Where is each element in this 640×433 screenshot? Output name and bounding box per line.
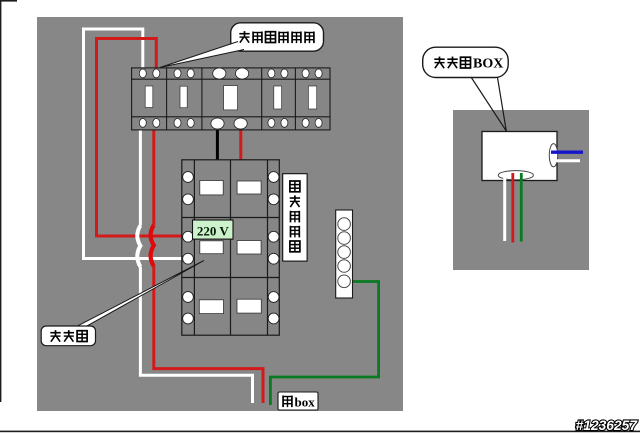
breaker terminal M4 top bbox=[268, 69, 275, 78]
svg-text:#1236257: #1236257 bbox=[576, 418, 639, 433]
callout pump-box tail lines bbox=[471, 77, 506, 131]
breaker terminal M4 bottom bbox=[281, 119, 288, 128]
callout char 4 bbox=[279, 32, 288, 44]
block terminal 1 bbox=[183, 172, 194, 183]
label char 2 bbox=[290, 195, 300, 207]
breaker terminal M3 bottom-left (main) bbox=[211, 118, 224, 129]
block handle 4 bbox=[237, 241, 261, 255]
breaker M5 handle bbox=[308, 86, 316, 109]
pump label char 2 bbox=[64, 330, 74, 342]
callout char 1 bbox=[434, 57, 444, 69]
callout char 2 bbox=[253, 32, 262, 44]
box right grommet ellipse bbox=[549, 144, 557, 167]
block terminal 2 bbox=[183, 194, 194, 205]
block terminal 9 bbox=[183, 292, 194, 303]
label to-box bbox=[278, 392, 318, 410]
terminal strip hole 2 bbox=[338, 232, 351, 245]
frame top-left stub bbox=[0, 0, 17, 2]
breaker M4 handle bbox=[274, 86, 282, 109]
block terminal 5 bbox=[183, 231, 194, 242]
callout char 5 bbox=[292, 32, 301, 44]
breaker terminal M5 top bbox=[315, 69, 322, 78]
block terminal 7 bbox=[268, 231, 279, 242]
block handle 1 bbox=[200, 181, 223, 195]
breaker terminal M2 top bbox=[174, 69, 181, 78]
breaker strip body (leakage protection breakers row) bbox=[132, 68, 330, 130]
breaker terminal M2 top bbox=[187, 69, 194, 78]
breaker M3 handle (main, wider) bbox=[224, 86, 238, 110]
wire white L1 from breaker M1 to 220V block (hot-return loop) bbox=[84, 29, 183, 259]
block terminal 6 bbox=[183, 253, 194, 264]
terminal strip hole 5 bbox=[338, 275, 351, 288]
svg-text:box: box bbox=[295, 395, 316, 410]
pump label char 1 bbox=[50, 330, 60, 342]
wire white out right bbox=[554, 159, 580, 162]
terminal strip hole 3 bbox=[338, 246, 351, 259]
block terminal 10 bbox=[183, 313, 194, 324]
block handle 5 bbox=[199, 300, 223, 314]
wire white L2 lower run to bottom bbox=[140, 267, 252, 403]
label char 4 bbox=[291, 226, 300, 238]
breaker terminal M1 top bbox=[153, 69, 160, 78]
wire red L2 hop arcs over horizontal wires bbox=[151, 225, 154, 266]
label char 5 bbox=[290, 241, 300, 252]
breaker terminal M1 bottom bbox=[139, 119, 146, 128]
wire blue out right bbox=[551, 150, 583, 153]
pump junction box (white) bbox=[482, 132, 557, 181]
wire red down from box bbox=[511, 173, 514, 243]
pump label char 3 bbox=[77, 331, 87, 342]
breaker terminal M5 top bbox=[302, 69, 309, 78]
block terminal 12 bbox=[268, 313, 279, 324]
callout char 6 bbox=[305, 32, 314, 44]
breaker terminal M5 bottom bbox=[302, 119, 309, 128]
box bottom grommet ellipse bbox=[498, 171, 533, 180]
callout tail (wedge) bbox=[160, 42, 244, 68]
label char 1 bbox=[290, 181, 300, 192]
svg-text:BOX: BOX bbox=[473, 56, 503, 71]
wire red L2 from breaker M1 bottom down to bottom run bbox=[152, 124, 155, 225]
right gray panel bbox=[453, 110, 589, 270]
breaker terminal M3 top-right (main) bbox=[236, 68, 249, 79]
block terminal 3 bbox=[268, 172, 279, 183]
svg-text:220 V: 220 V bbox=[197, 223, 230, 238]
frame bottom line bbox=[0, 431, 640, 433]
breaker M2 handle bbox=[180, 86, 187, 108]
callout char 3 bbox=[461, 57, 471, 68]
breaker terminal M1 top bbox=[139, 69, 146, 78]
wire red from breaker M3 to 220V block bbox=[239, 124, 242, 162]
wire red L2 lower run to bottom bbox=[154, 266, 263, 403]
block terminal 8 bbox=[268, 253, 279, 264]
wire white L2 from breaker M1 bottom down to bottom run bbox=[139, 124, 142, 226]
breaker terminal M2 bottom bbox=[187, 119, 194, 128]
breaker M1 handle bbox=[145, 86, 153, 108]
callout pump label box bbox=[41, 326, 95, 346]
wire white L2 hop arcs over horizontal wires bbox=[137, 226, 140, 267]
breaker terminal M4 top bbox=[281, 69, 288, 78]
breaker terminal M5 bottom bbox=[315, 119, 322, 128]
frame left border line bbox=[0, 0, 1, 402]
label char 3 bbox=[291, 211, 300, 223]
label no-fuse-breaker (vertical CJK) box bbox=[283, 174, 307, 261]
callout char 2 bbox=[447, 57, 457, 69]
callout pump-box bubble bbox=[423, 47, 509, 77]
terminal strip (neutral/ground bar) bbox=[336, 210, 353, 298]
breaker terminal M3 top-left (main) bbox=[213, 68, 226, 79]
wire black from breaker M3 to 220V block bbox=[216, 124, 219, 161]
wire green down from box bbox=[520, 173, 523, 242]
terminal strip hole 1 bbox=[338, 218, 351, 231]
block handle 2 bbox=[237, 181, 261, 194]
label 220 V bbox=[193, 220, 234, 239]
wire green from terminal strip to bottom box run bbox=[270, 282, 378, 406]
callout pump label leader wedge bbox=[72, 261, 204, 332]
callout leakage-protection-switch bubble bbox=[231, 23, 324, 51]
breaker terminal M1 bottom bbox=[153, 119, 160, 128]
callout char 1 bbox=[239, 31, 249, 43]
block terminal 11 bbox=[268, 292, 279, 303]
block handle 3 bbox=[200, 241, 223, 254]
to-box char bbox=[283, 396, 292, 408]
wire red L1 from breaker M1 to 220V block bbox=[97, 39, 183, 237]
block handle 6 bbox=[237, 299, 261, 313]
220V breaker block body (no-fuse breakers, 3 rows x 2 cols) bbox=[182, 160, 279, 335]
callout char 3 bbox=[266, 32, 276, 43]
terminal strip hole 4 bbox=[338, 260, 351, 273]
breaker terminal M4 bottom bbox=[268, 119, 275, 128]
breaker terminal M2 bottom bbox=[174, 119, 181, 128]
left gray panel bbox=[37, 17, 403, 411]
breaker terminal M3 bottom-right (main) bbox=[234, 118, 247, 129]
wire white down from box bbox=[503, 173, 506, 241]
block terminal 4 bbox=[268, 194, 279, 205]
